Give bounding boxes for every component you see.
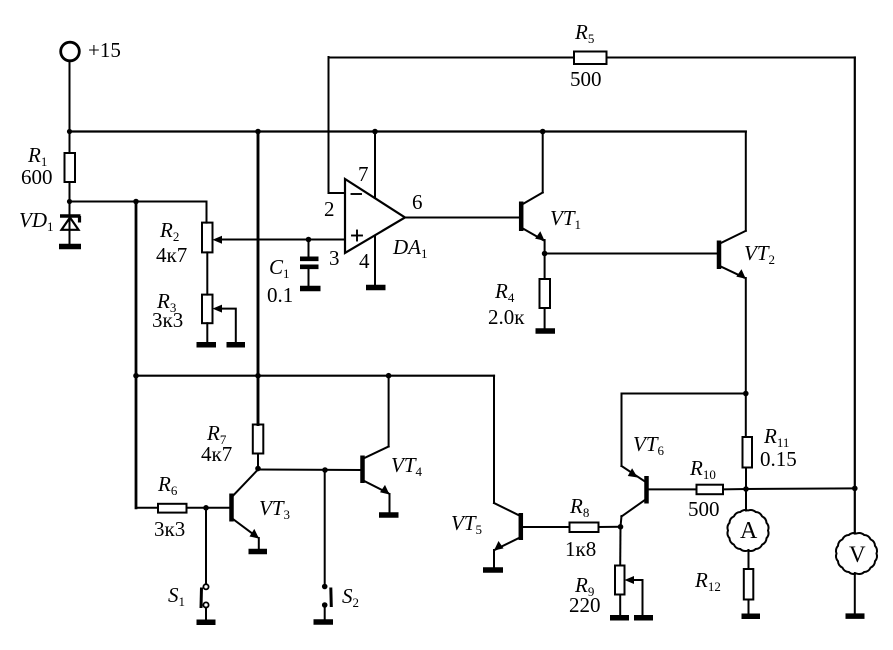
capacitor C1 xyxy=(300,240,319,287)
svg-text:4: 4 xyxy=(359,249,370,273)
pin plus sign xyxy=(352,231,362,241)
ground V xyxy=(846,613,865,619)
wire bus to VT5 collector xyxy=(493,376,495,503)
svg-text:600: 600 xyxy=(21,165,53,189)
wire R9 bottom xyxy=(619,595,621,616)
wire node to R9 xyxy=(619,527,621,566)
transistor VT2 xyxy=(719,231,746,279)
wire VT1 emitter down xyxy=(544,240,546,254)
wire R7 bottom xyxy=(257,454,259,469)
node rail-VT1 xyxy=(540,129,546,135)
wire VT6 collector down xyxy=(621,516,622,527)
wire R3 bottom xyxy=(206,323,208,342)
ground VT5 xyxy=(483,567,503,573)
wire R5-left vertical to pin2 xyxy=(329,57,346,193)
node rail-pin7 xyxy=(372,129,378,135)
svg-text:500: 500 xyxy=(688,497,720,521)
potentiometer R9 xyxy=(615,566,643,616)
wire VT4 collector xyxy=(388,376,390,447)
wire A to R12 xyxy=(748,550,750,569)
wire to R4 xyxy=(544,254,546,280)
resistor R1 xyxy=(65,153,76,182)
node rail-left xyxy=(67,129,72,134)
wire VT6 base to R10 xyxy=(649,488,697,490)
node R10-R11 xyxy=(743,486,749,492)
wire pin4 xyxy=(374,236,376,286)
wire VT3 emitter xyxy=(258,538,260,548)
wire R10 to node xyxy=(723,488,746,490)
resistor R12 xyxy=(744,569,754,600)
wire VT5 emitter xyxy=(493,550,495,567)
wire bus middle xyxy=(136,375,494,377)
svg-text:A: A xyxy=(740,518,758,544)
ground R4 xyxy=(536,328,556,334)
wire right vertical V-line xyxy=(854,58,856,534)
wire R6 to VT3 base xyxy=(187,507,230,509)
svg-text:4к7: 4к7 xyxy=(156,243,187,267)
wire R1 to VD1 xyxy=(69,182,71,215)
resistor R8 xyxy=(570,523,599,533)
svg-text:220: 220 xyxy=(569,593,601,617)
wire VT2 collector to rail xyxy=(745,132,747,231)
node R1-VD1 xyxy=(67,199,72,204)
node rail-R7 xyxy=(255,129,261,135)
node C1 top xyxy=(306,237,312,243)
svg-text:1к8: 1к8 xyxy=(565,537,596,561)
wire R6 from left vertical xyxy=(136,507,158,509)
ground VD1 xyxy=(59,244,81,250)
node S1 top xyxy=(203,505,209,511)
wire R10 node to V line xyxy=(746,487,855,490)
wire VT5 base to R8 xyxy=(523,526,570,528)
svg-text:6: 6 xyxy=(412,190,423,214)
wire VT4 emitter xyxy=(389,494,391,512)
transistor VT6 xyxy=(622,466,647,517)
transistor VT4 xyxy=(363,447,390,495)
ground R12 xyxy=(742,614,761,620)
node V-line xyxy=(852,486,858,492)
svg-text:2.0к: 2.0к xyxy=(488,305,525,329)
svg-text:2: 2 xyxy=(324,197,335,221)
resistor R5 top feedback xyxy=(574,52,607,65)
zener VD1 xyxy=(60,215,81,244)
wire left vertical branch xyxy=(135,202,138,508)
wire R7 vertical from rail xyxy=(257,132,260,425)
transistor VT3 xyxy=(232,470,260,539)
wire VT1 emitter to VT2 base xyxy=(545,253,717,255)
ground C1 xyxy=(300,286,321,292)
wire R2 wiper to opamp xyxy=(219,239,345,241)
op-amp DA1 xyxy=(345,179,405,253)
wire R2 to R3 xyxy=(206,252,208,294)
ground R9 xyxy=(610,615,629,621)
wire pin7 xyxy=(374,132,376,198)
resistor R6 xyxy=(158,504,187,513)
node VD1-left-branch xyxy=(133,199,139,205)
ground VT4 xyxy=(379,512,399,518)
wire R5 right xyxy=(607,57,855,59)
resistor R10 xyxy=(697,485,724,495)
svg-text:+15: +15 xyxy=(88,38,121,62)
switch S2 xyxy=(322,470,331,619)
node R7-VT3-VT4 xyxy=(255,466,261,472)
terminal +15 xyxy=(61,42,80,131)
svg-text:0.15: 0.15 xyxy=(760,447,797,471)
node bus-left xyxy=(133,373,139,379)
potentiometer R3 xyxy=(202,295,236,342)
wire R11 to node xyxy=(745,468,747,511)
wire +15 to R1 xyxy=(69,132,71,154)
wire R4 bottom xyxy=(544,308,546,328)
svg-text:7: 7 xyxy=(358,162,369,186)
svg-text:3к3: 3к3 xyxy=(152,308,183,332)
wire R5 left xyxy=(329,57,575,59)
wire R8 to node xyxy=(599,526,621,528)
svg-text:0.1: 0.1 xyxy=(267,283,293,307)
potentiometer R2 xyxy=(202,223,222,253)
ground S2 xyxy=(314,619,334,625)
wire VD1 node to R2 xyxy=(70,202,207,223)
node R8-VT6 xyxy=(618,524,624,530)
wire rail +15 horizontal xyxy=(70,130,746,132)
node bus-VT4 xyxy=(386,373,392,379)
ground S1 xyxy=(197,620,216,626)
ground R3 xyxy=(197,342,217,348)
node VT1 emitter xyxy=(542,251,548,257)
voltmeter V xyxy=(836,533,877,574)
wire R12 bottom xyxy=(748,600,750,614)
switch S1 xyxy=(201,508,209,620)
svg-text:3: 3 xyxy=(329,246,340,270)
ground VT3 xyxy=(249,549,268,555)
svg-text:V: V xyxy=(849,542,866,567)
resistor R11 xyxy=(743,437,753,468)
svg-text:4к7: 4к7 xyxy=(201,442,232,466)
transistor VT1 xyxy=(521,193,544,241)
wire VT2 emitter down to R11 xyxy=(745,278,747,437)
svg-text:3к3: 3к3 xyxy=(154,517,185,541)
ground R9 wiper xyxy=(634,615,653,621)
resistor R7 xyxy=(253,425,263,454)
wire R7 node to VT4 base xyxy=(258,469,361,472)
node VT6 top wire xyxy=(743,391,749,397)
wire VT1 collector xyxy=(542,132,544,193)
node bus-R7 xyxy=(255,373,261,379)
svg-text:500: 500 xyxy=(570,67,602,91)
pin minus sign xyxy=(352,193,362,195)
resistor R4 xyxy=(540,279,551,308)
node S2 top xyxy=(322,467,328,473)
wire pin6 output xyxy=(405,217,519,219)
ground pin4 xyxy=(366,285,386,291)
wire VT6 emitter top xyxy=(622,394,747,467)
transistor VT5 xyxy=(494,503,521,551)
ammeter A xyxy=(727,510,768,551)
wire V to ground xyxy=(854,573,856,614)
ground R3 wiper xyxy=(227,342,246,348)
